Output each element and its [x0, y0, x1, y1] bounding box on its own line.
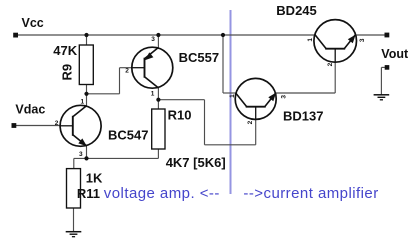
- svg-text:3: 3: [79, 151, 83, 158]
- svg-text:Vout: Vout: [381, 47, 409, 61]
- svg-text:2: 2: [247, 120, 254, 124]
- svg-text:-->current amplifier: -->current amplifier: [243, 185, 378, 202]
- svg-text:47K: 47K: [53, 43, 77, 58]
- svg-text:2: 2: [125, 68, 129, 75]
- svg-text:1: 1: [151, 91, 155, 98]
- svg-text:BC547: BC547: [108, 128, 148, 143]
- svg-text:Vcc: Vcc: [22, 16, 44, 30]
- svg-text:BD137: BD137: [283, 108, 323, 123]
- svg-text:1K: 1K: [86, 171, 103, 186]
- svg-text:3: 3: [359, 38, 366, 42]
- svg-text:1: 1: [307, 38, 314, 42]
- svg-text:BC557: BC557: [179, 50, 219, 65]
- svg-text:2: 2: [55, 120, 59, 127]
- svg-text:voltage amp. <--: voltage amp. <--: [104, 185, 220, 202]
- svg-text:1: 1: [81, 99, 85, 106]
- svg-text:1: 1: [229, 94, 236, 98]
- svg-text:3: 3: [151, 36, 155, 43]
- svg-text:3: 3: [281, 95, 288, 99]
- svg-text:BD245: BD245: [276, 3, 316, 18]
- svg-text:R11: R11: [77, 186, 100, 201]
- svg-text:2: 2: [327, 62, 334, 66]
- svg-text:R10: R10: [168, 108, 192, 123]
- svg-text:R9: R9: [59, 64, 74, 81]
- svg-text:Vdac: Vdac: [15, 103, 45, 117]
- svg-text:4K7 [5K6]: 4K7 [5K6]: [166, 155, 226, 170]
